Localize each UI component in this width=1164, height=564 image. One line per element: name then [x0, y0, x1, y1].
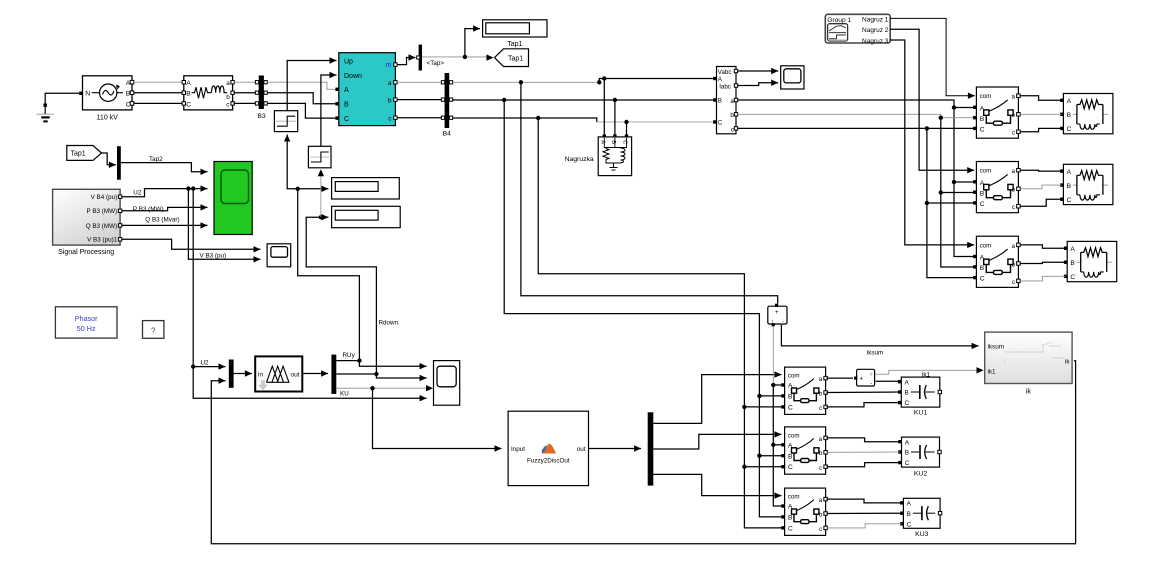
three-phase breaker Q1 [973, 87, 1020, 138]
Fuzzy2DiscOut MATLAB function block [508, 411, 588, 485]
svg-text:ik: ik [1026, 388, 1032, 395]
junction b drop [939, 116, 943, 120]
svg-text:B: B [1067, 112, 1072, 119]
wire phase a to breaker bank [738, 100, 973, 108]
three-phase RL load L2 [1060, 164, 1113, 204]
label U2 [133, 189, 142, 196]
svg-text:in: in [258, 371, 263, 378]
wire tap to Nagruzka B [614, 100, 616, 135]
capacitor bank KU2 [898, 437, 941, 467]
wire fuzzy to demux [302, 370, 328, 376]
junction U2 a [186, 186, 190, 190]
wire current measurement to KU1 A [876, 380, 900, 382]
svg-text:ik1: ik1 [988, 369, 997, 376]
label B4 [443, 130, 452, 137]
wire a drop to breaker2 A [954, 108, 973, 183]
junction c tap [536, 116, 540, 120]
wire U2 to mux input 1 [193, 363, 225, 369]
three-phase breaker QC1 [781, 367, 827, 414]
current measurement iksum [768, 304, 787, 327]
wire C feed to breaker QC2 C [744, 466, 781, 468]
junction c drop [925, 126, 929, 130]
svg-text:KU2: KU2 [914, 471, 927, 478]
wire breaker Q1 b to load L1 B [1020, 113, 1062, 115]
svg-text:C: C [905, 400, 910, 407]
wire breaker Q3 a to load L3 A [1020, 245, 1065, 248]
wire Nagruz 2 to breaker Q2 com [890, 29, 974, 173]
svg-text:Tap2: Tap2 [149, 156, 163, 163]
junction KU [370, 386, 374, 390]
svg-text:B: B [788, 515, 793, 522]
capacitor bank KU3 [900, 498, 942, 528]
demux breaker commands [648, 412, 654, 485]
svg-text:B: B [980, 190, 985, 197]
svg-text:com: com [980, 168, 992, 175]
svg-text:A: A [1067, 169, 1072, 176]
bus B4 [441, 73, 452, 128]
wire breaker QC3 c to KU3 C [826, 524, 901, 528]
svg-text:KU3: KU3 [915, 531, 928, 538]
svg-text:C: C [1067, 126, 1072, 133]
wire A feed to breaker QC3 A [773, 445, 781, 506]
wire demux KU out [336, 387, 428, 389]
label B3 [257, 113, 266, 120]
Signal Processing subsystem [53, 189, 122, 245]
svg-text:Q B3 (MW): Q B3 (MW) [86, 223, 117, 230]
wire transformer c to bus B3 [234, 102, 257, 104]
wire breaker Q1 c to load L1 C [1020, 128, 1062, 131]
wire OLTC c to bus B4 [397, 117, 443, 119]
svg-text:com: com [980, 242, 992, 249]
svg-text:P B3 (MW): P B3 (MW) [133, 206, 164, 213]
wire RUy loop up [298, 189, 360, 361]
label U2 lower [201, 359, 210, 366]
wire demux2 out1 to breaker QC1 com [653, 371, 781, 423]
svg-text:B: B [186, 91, 191, 98]
three-phase transformer block [182, 76, 234, 110]
svg-text:50 Hz: 50 Hz [77, 324, 96, 333]
svg-text:Up: Up [344, 58, 353, 65]
wire breaker QC2 a to KU2 A [826, 438, 899, 442]
wire Iabc to scope [738, 80, 778, 86]
svg-text:Tap1: Tap1 [71, 151, 86, 158]
three-phase V-I measurement [713, 67, 738, 134]
goto tag Tap1 [495, 49, 529, 67]
svg-text:c: c [819, 465, 822, 472]
svg-text:a: a [730, 98, 734, 105]
wire transformer b to bus B3 [234, 92, 257, 94]
svg-text:a: a [819, 497, 823, 504]
svg-text:Nagruzka: Nagruzka [565, 156, 594, 163]
wire A feed to breaker QC2 A [773, 444, 781, 446]
source 110 kV [79, 76, 134, 110]
wire breaker QC2 c to KU2 C [826, 463, 899, 467]
wire demux RUy out [336, 361, 426, 370]
svg-text:B: B [907, 511, 911, 518]
svg-text:KU1: KU1 [914, 409, 927, 416]
label KU3 [915, 531, 928, 538]
wire B feed to breaker QC3 B [759, 456, 781, 517]
wire b drop to breaker2 B [941, 118, 973, 193]
demux RUy-Rdown-KU [331, 355, 336, 394]
svg-text:110 kV: 110 kV [97, 114, 119, 121]
svg-text:b: b [226, 94, 230, 101]
svg-text:C: C [980, 276, 985, 283]
svg-text:Fuzzy2DiscOut: Fuzzy2DiscOut [527, 457, 570, 464]
wire B4 b to measurement B [453, 99, 713, 101]
label 110 kV [97, 114, 119, 121]
wire ik1 to ik block [876, 370, 978, 374]
svg-text:KU: KU [340, 391, 349, 398]
label KU1 [914, 409, 927, 416]
svg-text:Nagruz 1: Nagruz 1 [862, 16, 889, 23]
junction U2 b [191, 186, 195, 190]
label Rdown [379, 319, 399, 326]
svg-text:Rdown: Rdown [379, 319, 399, 326]
svg-text:B3: B3 [257, 113, 266, 120]
svg-text:a: a [819, 376, 823, 383]
relay Up (hysteresis) [274, 111, 297, 132]
svg-text:C: C [344, 116, 349, 123]
svg-text:C: C [907, 521, 912, 528]
wire C feed to breaker QC1 C [744, 406, 781, 408]
svg-text:B: B [788, 453, 793, 460]
wire ground to source N [45, 93, 79, 104]
three-phase breaker Q3 [973, 236, 1020, 287]
svg-text:Nagruz 2: Nagruz 2 [862, 27, 889, 34]
wire relay Up output to OLTC Up input [287, 57, 336, 110]
svg-text:C: C [788, 525, 793, 532]
svg-text:B: B [905, 390, 909, 397]
doc block ? [143, 321, 164, 339]
wire breaker Q3 c to load L3 C [1020, 276, 1065, 281]
wire relay Down output to OLTC Down input [321, 72, 337, 147]
three-phase breaker QC3 [781, 488, 827, 535]
wire breaker QC3 b to KU3 B [826, 512, 901, 514]
svg-text:B4: B4 [443, 130, 452, 137]
junction b tap [502, 98, 506, 102]
wire iksum output to ik block [781, 325, 978, 349]
svg-text:Vabc: Vabc [718, 69, 732, 76]
svg-text:B: B [788, 394, 793, 401]
wire to display RUy [298, 186, 329, 192]
relay Down (hysteresis) [308, 146, 331, 168]
label KU [340, 391, 349, 398]
wire B4 a to measurement A [453, 81, 600, 83]
svg-text:C: C [186, 101, 191, 108]
svg-text:+: + [775, 310, 779, 316]
junction on Tap wire [463, 55, 467, 59]
svg-text:Q B3 (Mvar): Q B3 (Mvar) [145, 216, 179, 223]
current measurement ik1 [854, 369, 875, 386]
three-phase breaker QC2 [781, 427, 827, 474]
from tag Tap1 [67, 146, 102, 161]
wire Fuzzy2DiscOut to demux2 [589, 445, 642, 451]
wire phase b to breaker bank [738, 114, 973, 117]
label V B3 (pu) [200, 253, 227, 260]
wire KU to Fuzzy2DiscOut [373, 389, 502, 452]
display RUy [332, 178, 400, 199]
junction U2 mux [191, 364, 195, 368]
svg-text:C: C [718, 120, 723, 127]
svg-text:c: c [1012, 130, 1015, 137]
svg-text:b: b [388, 97, 392, 104]
svg-text:a: a [1012, 94, 1016, 101]
wire breaker Q2 b to load L2 B [1020, 185, 1062, 189]
wire tap to Nagruzka C [626, 122, 628, 135]
feedback wire ik to mux input 2 [211, 361, 1075, 544]
wire A feed down from current sum [772, 326, 774, 385]
display Tap1 value [483, 20, 547, 37]
junction B feed QC2 [757, 454, 761, 458]
svg-text:RUy: RUy [343, 352, 356, 359]
svg-text:b: b [730, 112, 734, 119]
svg-text:B: B [344, 102, 349, 109]
wire P B3 to green scope input 3 [122, 204, 208, 211]
junction a tap [519, 80, 523, 84]
signal builder Group 1 [825, 14, 890, 45]
wire breaker Q3 b to load L3 B [1020, 262, 1065, 263]
wire B4 c to measurement C [453, 118, 597, 122]
svg-text:<Tap>: <Tap> [427, 60, 445, 67]
wire Rdown loop up [306, 217, 376, 374]
svg-text:B: B [980, 116, 985, 123]
svg-text:A: A [907, 501, 912, 508]
svg-text:com: com [788, 432, 800, 439]
svg-text:m: m [386, 62, 392, 69]
svg-text:B: B [1067, 183, 1072, 190]
svg-text:a: a [1012, 168, 1016, 175]
wire A feed to breaker QC1 A [773, 384, 781, 386]
svg-text:A: A [186, 80, 191, 87]
wire breaker QC2 b to KU2 B [826, 451, 899, 453]
svg-text:A: A [905, 440, 910, 447]
wire source A to transformer (phase a) [134, 81, 182, 83]
svg-text:com: com [788, 373, 800, 380]
green scope [214, 162, 252, 235]
svg-text:c: c [731, 126, 734, 133]
Nagruzka three-phase load [598, 134, 631, 175]
label KU2 [914, 471, 927, 478]
wire Tap2 to green scope input 1 [121, 163, 208, 175]
label Signal Processing [58, 249, 114, 256]
wire phase b tap down [504, 100, 759, 396]
svg-text:V B3 (pu)1: V B3 (pu)1 [87, 237, 118, 244]
wire U2 down to mux and scope [193, 189, 426, 402]
svg-text:i: i [871, 371, 872, 376]
wire phase c to breaker bank [738, 127, 973, 129]
wire source C to transformer [134, 102, 182, 104]
svg-text:+: + [860, 376, 864, 382]
three-phase RL load L3 [1064, 241, 1117, 281]
junction a jog [597, 80, 601, 84]
label Nagruzka [565, 156, 594, 163]
svg-text:P B3 (MW): P B3 (MW) [87, 208, 118, 215]
fuzzy membership block [255, 356, 302, 391]
svg-text:out: out [290, 371, 299, 378]
wire breaker QC1 a to current measurement [826, 377, 853, 379]
svg-text:c: c [819, 526, 822, 533]
wire B3 b to OLTC B [267, 93, 335, 104]
svg-text:C: C [788, 464, 793, 471]
label <Tap> [427, 60, 445, 67]
ground [37, 104, 54, 122]
wire Vabc to scope [738, 68, 778, 74]
wire tap to display [465, 25, 480, 57]
svg-text:c: c [819, 405, 822, 412]
wire selector to goto Tap1 [422, 56, 487, 58]
label RUy [343, 352, 356, 359]
svg-text:B: B [905, 450, 909, 457]
wire OLTC m output to tap selector [397, 54, 415, 64]
svg-text:a: a [226, 80, 230, 87]
wire B feed to breaker QC1 B [759, 395, 781, 397]
svg-text:A: A [1070, 246, 1075, 253]
svg-text:com: com [788, 494, 800, 501]
junction a drop [952, 105, 956, 109]
svg-text:Input: Input [511, 446, 525, 453]
wire U2 to green scope input 2 [122, 185, 208, 196]
wire to relay Down input [320, 173, 322, 218]
capacitor bank KU1 [898, 377, 942, 407]
rate transition bar [117, 146, 121, 180]
wire B3 a to OLTC A [267, 82, 335, 89]
label iksum [867, 349, 883, 356]
wire source B to transformer [134, 92, 182, 94]
wire Nagruz 1 to breaker Q1 com [890, 18, 975, 99]
wire breaker Q2 a to load L2 A [1020, 169, 1062, 172]
wire phase a tap to current sum [521, 82, 778, 303]
wire transformer a to bus B3 [234, 81, 257, 83]
tap selector bar [417, 45, 422, 71]
wire to display Rdown [321, 214, 329, 220]
powergui Phasor 50 Hz [55, 307, 117, 338]
svg-text:Down: Down [344, 73, 362, 80]
wire c drop to breaker2 C [927, 128, 973, 203]
label Tap1 under display [507, 41, 522, 48]
svg-text:c: c [1012, 279, 1015, 286]
wire B feed to breaker QC2 B [759, 455, 781, 457]
scope VB3 [267, 244, 291, 267]
svg-text:B: B [1070, 260, 1075, 267]
label ik1 [922, 372, 931, 379]
wire breaker Q1 a to load L1 A [1020, 96, 1062, 101]
svg-text:?: ? [151, 327, 156, 336]
wire demux Rdown out [336, 374, 426, 381]
wire OLTC b to bus B4 [397, 99, 443, 101]
junction Rdown display [319, 215, 323, 219]
junction A feed QC2 [771, 443, 775, 447]
svg-text:A: A [1067, 98, 1072, 105]
svg-text:com: com [980, 93, 992, 100]
svg-text:a: a [1012, 243, 1016, 250]
svg-text:V B3 (pu): V B3 (pu) [200, 253, 227, 260]
wire breaker QC3 a to KU3 A [826, 499, 901, 503]
svg-text:iksum: iksum [988, 344, 1004, 351]
junction Rdown [374, 372, 378, 376]
mux U2-ik [229, 360, 234, 388]
wire C feed down [743, 407, 745, 467]
junction C feed QC2 [742, 465, 746, 469]
wire V B3 (pu)1 to scope VB3 [122, 239, 261, 252]
wire A feed down [772, 385, 774, 445]
svg-text:B: B [980, 265, 985, 272]
label P B3 (MW) [133, 206, 164, 213]
wire U2 branch to scope VB3 input 2 [188, 189, 260, 263]
svg-text:C: C [980, 127, 985, 134]
wire c drop to breaker3 C [927, 203, 973, 278]
svg-text:A: A [344, 87, 349, 94]
svg-text:C: C [905, 460, 910, 467]
svg-text:a: a [819, 436, 823, 443]
OLTC transformer subsystem (cyan) [335, 53, 397, 126]
svg-text:U2: U2 [133, 189, 142, 196]
svg-text:C: C [788, 404, 793, 411]
wire B3 c to OLTC C [267, 103, 335, 118]
wire breaker QC1 b to KU1 B [826, 391, 899, 394]
label Tap2 [149, 156, 163, 163]
scope Vabc Iabc [781, 66, 804, 89]
wire Tap1 to rate bar [102, 153, 116, 168]
junction C feed QC1 [742, 405, 746, 409]
label Q B3 (Mvar) [145, 216, 179, 223]
svg-text:N: N [85, 91, 90, 98]
svg-text:A: A [905, 380, 910, 387]
svg-text:iksum: iksum [867, 349, 883, 356]
label ik [1026, 388, 1032, 395]
scope regulator [434, 361, 460, 406]
svg-text:out: out [577, 446, 586, 453]
svg-text:C: C [1067, 197, 1072, 204]
wire to relay Up input [284, 135, 298, 189]
svg-text:Iabc: Iabc [719, 84, 731, 91]
svg-text:Tap1: Tap1 [507, 41, 522, 48]
wire Nagruz 3 to breaker Q3 com [890, 40, 974, 248]
wire B feed down [758, 396, 760, 456]
wire C feed to breaker QC3 C [744, 467, 781, 528]
svg-text:Signal Processing: Signal Processing [58, 249, 114, 256]
svg-text:C: C [1070, 274, 1075, 281]
wire breaker Q2 c to load L2 C [1020, 199, 1062, 206]
svg-text:Tap1: Tap1 [508, 56, 523, 63]
svg-text:B: B [718, 98, 722, 105]
wire b drop to breaker3 B [941, 193, 973, 268]
wire Q B3 to green scope input 4 [122, 222, 208, 228]
bus B3 [255, 76, 267, 110]
svg-text:V B4 (pu): V B4 (pu) [91, 194, 118, 201]
wire demux2 out3 to breaker QC3 com [653, 474, 781, 498]
svg-text:Nagruz 3: Nagruz 3 [862, 38, 889, 45]
svg-text:C: C [980, 201, 985, 208]
junction RUy [357, 358, 361, 362]
svg-text:i: i [772, 318, 773, 323]
subsystem ik [985, 332, 1072, 383]
wire OLTC a to bus B4 [397, 81, 443, 83]
svg-text:U2: U2 [201, 359, 210, 366]
three-phase RL load L1 [1060, 94, 1113, 134]
svg-text:a: a [388, 80, 392, 87]
svg-text:c: c [1012, 204, 1015, 211]
svg-text:Phasor: Phasor [75, 314, 98, 323]
wire breaker QC1 c to KU1 C [826, 403, 899, 407]
wire a drop to breaker3 A [954, 182, 973, 257]
wire demux2 out2 to breaker QC2 com [653, 431, 781, 449]
display Rdown [332, 206, 401, 227]
three-phase breaker Q2 [973, 162, 1020, 213]
wire mux to fuzzy block [234, 370, 252, 376]
junction B feed QC1 [757, 394, 761, 398]
junction RUy display [296, 187, 300, 191]
